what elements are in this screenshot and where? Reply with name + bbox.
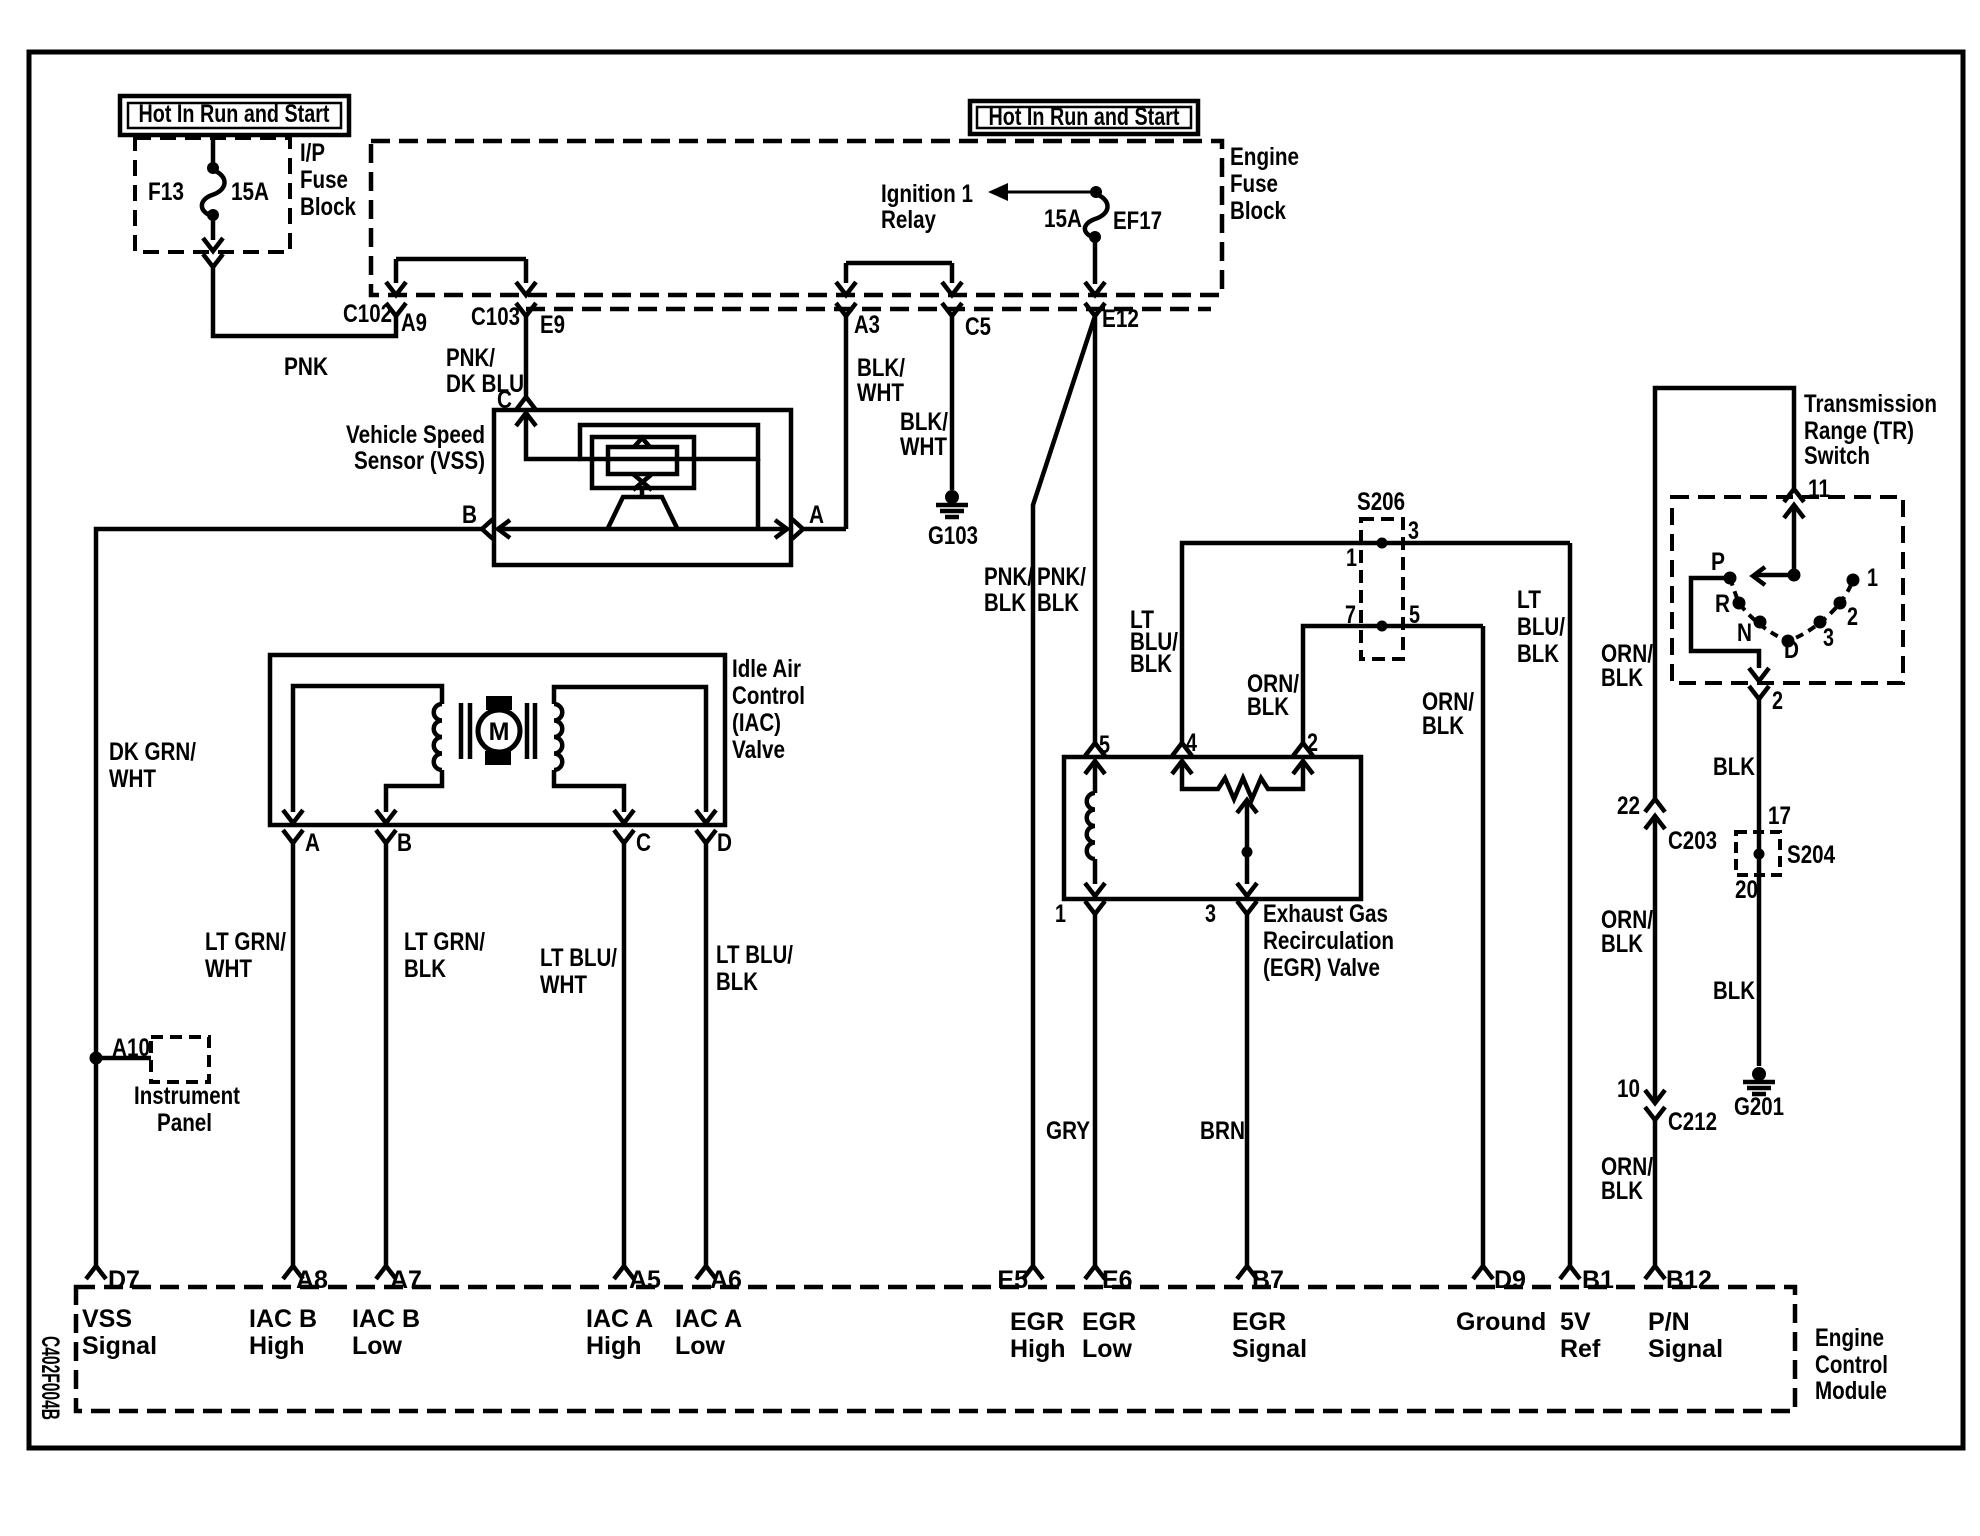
svg-text:IAC A: IAC A — [586, 1305, 653, 1333]
IAC motor M — [478, 696, 520, 765]
wire DK GRN/WHT: VSS B to ECM D7 — [96, 529, 482, 1266]
ground G201 — [1752, 1067, 1766, 1081]
svg-text:BLK: BLK — [1601, 664, 1643, 692]
svg-text:R: R — [1715, 590, 1730, 618]
Vehicle Speed Sensor (VSS) box — [494, 410, 791, 565]
connector ECM E5 — [1023, 1266, 1043, 1279]
connector C103/E9 — [516, 282, 536, 295]
wire BLK/WHT: A3 down to VSS pin A — [844, 316, 849, 529]
label LT BLU/BLK (EGR 4) — [1130, 606, 1178, 678]
svg-text:High: High — [1010, 1335, 1066, 1363]
svg-text:Transmission: Transmission — [1804, 390, 1937, 418]
svg-text:A10: A10 — [112, 1034, 150, 1062]
svg-text:Relay: Relay — [881, 206, 936, 234]
wire stub to instrument panel — [96, 1056, 151, 1061]
I/P Fuse Block (dashed box) — [135, 138, 290, 252]
connector EGR pin 3 — [1237, 901, 1257, 914]
svg-text:WHT: WHT — [857, 379, 904, 407]
connector VSS pin C — [516, 397, 536, 410]
svg-text:BLK: BLK — [1517, 640, 1559, 668]
splice dot S206 lower — [1377, 621, 1388, 632]
svg-text:Low: Low — [1082, 1335, 1133, 1363]
TR contact R — [1733, 597, 1746, 610]
wire PNK/DK BLU: E9 to VSS pin C — [524, 316, 529, 396]
svg-text:BLK: BLK — [1130, 650, 1172, 678]
connector TR pin 11 — [1784, 489, 1804, 502]
splice dot S206 upper — [1377, 538, 1388, 549]
svg-text:C203: C203 — [1668, 827, 1717, 855]
Engine Fuse Block (dashed box) — [371, 141, 1222, 295]
label BLK/WHT (C5 wire) — [900, 408, 948, 461]
connector IAC A — [283, 830, 303, 843]
connector ECM B12 — [1645, 1266, 1665, 1279]
svg-text:17: 17 — [1768, 802, 1791, 830]
svg-text:WHT: WHT — [540, 971, 587, 999]
svg-text:B12: B12 — [1666, 1266, 1712, 1294]
connector VSS pin A — [792, 519, 803, 539]
svg-text:A7: A7 — [390, 1266, 422, 1294]
svg-text:C5: C5 — [965, 313, 991, 341]
TR pivot junction — [1788, 569, 1801, 582]
wire PNK/BLK: E12 diagonal to ECM E5 — [1033, 316, 1095, 1266]
splice S206 (dashed box) — [1361, 519, 1403, 659]
TR contact 3 — [1814, 616, 1827, 629]
connector ECM D9 — [1473, 1266, 1493, 1279]
connector A3 — [836, 282, 856, 295]
TR contact P — [1724, 572, 1737, 585]
Idle Air Control (IAC) Valve box — [270, 655, 725, 825]
svg-text:Control: Control — [732, 682, 805, 710]
wire LT BLU/BLK: EGR 4 up to splice — [1182, 543, 1570, 743]
svg-text:Hot In Run and Start: Hot In Run and Start — [139, 100, 331, 128]
connector C102/A9 — [386, 282, 406, 295]
svg-text:PNK/: PNK/ — [984, 563, 1033, 591]
svg-text:C: C — [497, 386, 512, 414]
wire LT BLU/WHT: IAC C to ECM A5 — [622, 843, 627, 1266]
svg-text:E5: E5 — [997, 1266, 1028, 1294]
svg-text:15A: 15A — [231, 178, 269, 206]
svg-text:Vehicle Speed: Vehicle Speed — [346, 421, 485, 449]
svg-text:Engine: Engine — [1230, 143, 1299, 171]
svg-text:2: 2 — [1772, 687, 1783, 715]
label P/N Signal — [1648, 1308, 1723, 1363]
svg-text:5V: 5V — [1560, 1308, 1591, 1336]
svg-text:Ref: Ref — [1560, 1335, 1601, 1363]
svg-text:(EGR) Valve: (EGR) Valve — [1263, 954, 1380, 982]
svg-text:BLU/: BLU/ — [1517, 613, 1565, 641]
svg-text:IAC B: IAC B — [352, 1305, 420, 1333]
svg-text:C: C — [636, 829, 651, 857]
Ignition 1 Relay feed arrow — [988, 183, 1094, 201]
svg-text:D: D — [717, 829, 732, 857]
svg-text:A9: A9 — [401, 309, 427, 337]
svg-text:EGR: EGR — [1232, 1308, 1286, 1336]
dashed connector line below engine fuse block — [526, 307, 1211, 312]
svg-text:BLK: BLK — [984, 589, 1026, 617]
label IAC B Low — [352, 1305, 420, 1360]
svg-text:WHT: WHT — [900, 433, 947, 461]
ground G103 — [945, 490, 959, 504]
svg-text:Control: Control — [1815, 1351, 1888, 1379]
connector C5 — [942, 282, 962, 295]
svg-text:LT GRN/: LT GRN/ — [404, 928, 485, 956]
svg-text:DK GRN/: DK GRN/ — [109, 738, 196, 766]
svg-text:3: 3 — [1823, 624, 1834, 652]
svg-text:3: 3 — [1408, 517, 1419, 545]
connector EGR pin 4 — [1172, 743, 1192, 756]
svg-text:BLK: BLK — [1037, 589, 1079, 617]
label Engine Fuse Block — [1230, 143, 1299, 225]
svg-text:2: 2 — [1847, 603, 1858, 631]
TR contact N — [1754, 616, 1767, 629]
connector TR pin 2 — [1749, 686, 1769, 699]
label 5V Ref — [1560, 1308, 1601, 1363]
svg-text:B7: B7 — [1252, 1266, 1284, 1294]
svg-text:Engine: Engine — [1815, 1324, 1884, 1352]
svg-text:E12: E12 — [1102, 305, 1139, 333]
svg-text:GRY: GRY — [1046, 1117, 1090, 1145]
svg-text:BLK: BLK — [1422, 712, 1464, 740]
svg-text:Exhaust Gas: Exhaust Gas — [1263, 900, 1388, 928]
label Engine Control Module — [1815, 1324, 1888, 1405]
svg-text:PNK/: PNK/ — [446, 344, 495, 372]
EGR solenoid coil — [1087, 763, 1095, 884]
label EGR Signal — [1232, 1308, 1307, 1363]
connector C203 pin 22 — [1645, 799, 1665, 812]
label VSS Signal — [82, 1305, 157, 1360]
svg-text:E9: E9 — [540, 311, 565, 339]
connector below F13 — [203, 254, 223, 267]
svg-text:Signal: Signal — [1232, 1335, 1307, 1363]
wire LT BLU/BLK to ECM B1 — [1568, 543, 1573, 1266]
IAC pin A arrow — [283, 810, 303, 823]
svg-text:5: 5 — [1409, 601, 1420, 629]
svg-text:1: 1 — [1867, 564, 1878, 592]
wire LT GRN/WHT: IAC A to ECM A8 — [291, 843, 296, 1266]
svg-text:5: 5 — [1099, 731, 1110, 759]
label EGR High — [1010, 1308, 1066, 1363]
svg-text:B: B — [462, 501, 477, 529]
IAC winding B (left) — [293, 686, 442, 812]
svg-text:High: High — [586, 1332, 642, 1360]
connector VSS pin B — [482, 519, 493, 539]
svg-text:PNK: PNK — [284, 353, 328, 381]
svg-text:D7: D7 — [108, 1266, 140, 1294]
svg-text:E6: E6 — [1102, 1266, 1133, 1294]
label ORN/BLK (above C203) — [1601, 640, 1653, 692]
IAC motor gap bars — [461, 703, 535, 759]
svg-text:G201: G201 — [1734, 1093, 1784, 1121]
IAC pin C arrow — [614, 810, 634, 823]
svg-text:PNK/: PNK/ — [1037, 563, 1086, 591]
wire PNK/BLK: E12 to EGR pin 5 — [1093, 316, 1098, 743]
label I/P Fuse Block — [300, 139, 356, 221]
svg-text:S204: S204 — [1787, 841, 1835, 869]
svg-text:BLK: BLK — [1713, 977, 1755, 1005]
svg-text:A: A — [305, 829, 320, 857]
svg-text:Recirculation: Recirculation — [1263, 927, 1394, 955]
svg-text:I/P: I/P — [300, 139, 325, 167]
svg-text:C402F004B: C402F004B — [36, 1336, 64, 1420]
svg-text:B: B — [397, 829, 412, 857]
svg-text:IAC A: IAC A — [675, 1305, 742, 1333]
label Exhaust Gas Recirculation (EGR) Valve — [1263, 900, 1394, 982]
fuse F13 15A — [148, 138, 269, 251]
connector C212 pin 10 — [1645, 1090, 1665, 1103]
svg-text:A6: A6 — [710, 1266, 742, 1294]
connector ECM A7 — [376, 1266, 396, 1279]
svg-text:BLK: BLK — [716, 968, 758, 996]
wire BLK/WHT: C5 down to ground G103 — [950, 316, 955, 490]
svg-text:LT BLU/: LT BLU/ — [716, 941, 793, 969]
svg-text:Ignition 1: Ignition 1 — [881, 180, 973, 208]
label IAC A Low — [675, 1305, 742, 1360]
Exhaust Gas Recirculation (EGR) Valve box — [1064, 757, 1361, 899]
IAC winding A (right) — [554, 687, 706, 812]
wire TR P to pin 2 exit — [1691, 578, 1759, 668]
svg-text:C212: C212 — [1668, 1108, 1717, 1136]
jumper wire A3 to C5 inside engine fuse block — [846, 263, 952, 283]
connector ECM E6 — [1085, 1266, 1105, 1279]
svg-text:C102: C102 — [343, 300, 392, 328]
Engine Control Module (dashed box) — [76, 1287, 1795, 1411]
svg-text:B1: B1 — [1582, 1266, 1614, 1294]
connector ECM D7 — [86, 1266, 106, 1279]
svg-text:Signal: Signal — [82, 1332, 157, 1360]
svg-text:High: High — [249, 1332, 305, 1360]
svg-text:20: 20 — [1735, 876, 1758, 904]
svg-text:Low: Low — [675, 1332, 726, 1360]
label Vehicle Speed Sensor (VSS) — [346, 421, 485, 475]
wire LT BLU/BLK: IAC D to ECM A6 — [704, 843, 709, 1266]
label Transmission Range (TR) Switch — [1804, 390, 1937, 470]
svg-text:WHT: WHT — [109, 765, 156, 793]
svg-text:LT: LT — [1517, 586, 1541, 614]
connector EGR pin 2 — [1293, 743, 1313, 756]
wire TR pin 11 to pivot — [1792, 507, 1797, 575]
label EGR Low — [1082, 1308, 1136, 1363]
svg-text:IAC B: IAC B — [249, 1305, 317, 1333]
svg-text:15A: 15A — [1044, 205, 1082, 233]
label PNK/BLK (E5 wire) — [984, 563, 1033, 617]
svg-text:BLK/: BLK/ — [857, 354, 905, 382]
node: Hot In Run and Start (right title box) — [970, 101, 1198, 134]
svg-text:S206: S206 — [1357, 488, 1405, 516]
svg-text:Ground: Ground — [1456, 1308, 1546, 1336]
connector ECM A6 — [696, 1266, 716, 1279]
svg-text:EGR: EGR — [1010, 1308, 1064, 1336]
svg-text:D9: D9 — [1494, 1266, 1526, 1294]
svg-text:EF17: EF17 — [1113, 207, 1162, 235]
wire VSS B-A internal — [497, 527, 788, 532]
node: Hot In Run and Start (left title box) — [120, 96, 349, 135]
svg-text:LT BLU/: LT BLU/ — [540, 944, 617, 972]
svg-text:BLK: BLK — [1601, 930, 1643, 958]
label Idle Air Control (IAC) Valve — [732, 655, 805, 764]
jumper wire A9 to E9 inside engine fuse block — [396, 259, 526, 283]
svg-text:Switch: Switch — [1804, 442, 1870, 470]
connector ECM A8 — [283, 1266, 303, 1279]
connector ECM A5 — [614, 1266, 634, 1279]
svg-text:EGR: EGR — [1082, 1308, 1136, 1336]
connector EGR pin 5 — [1085, 743, 1105, 756]
svg-text:Block: Block — [1230, 197, 1286, 225]
svg-text:P: P — [1711, 548, 1725, 576]
Instrument Panel (dashed box) — [151, 1037, 209, 1082]
label ORN/BLK (EGR 2) — [1247, 670, 1299, 721]
svg-text:4: 4 — [1186, 729, 1197, 757]
svg-text:WHT: WHT — [205, 955, 252, 983]
svg-text:Low: Low — [352, 1332, 403, 1360]
TR contact arc (dashed) — [1730, 578, 1853, 641]
svg-text:BLK/: BLK/ — [900, 408, 948, 436]
svg-text:Hot In Run and Start: Hot In Run and Start — [989, 103, 1181, 131]
svg-text:F13: F13 — [148, 178, 184, 206]
svg-text:BLK: BLK — [1247, 693, 1289, 721]
splice S204 (dashed box) — [1736, 832, 1780, 875]
TR contact 1 — [1847, 574, 1860, 587]
svg-text:A: A — [809, 501, 824, 529]
svg-text:Module: Module — [1815, 1377, 1887, 1405]
EGR potentiometer resistor — [1182, 763, 1303, 799]
fuse EF17 15A — [1044, 186, 1162, 295]
connector ECM B7 — [1237, 1266, 1257, 1279]
wire BLK: TR 2 to S204 — [1757, 699, 1762, 1066]
svg-text:Instrument: Instrument — [134, 1082, 241, 1110]
connector IAC B — [376, 830, 396, 843]
TR contact D — [1782, 635, 1795, 648]
label Instrument Panel — [134, 1082, 241, 1137]
svg-text:P/N: P/N — [1648, 1308, 1690, 1336]
EGR pin 1 arrow — [1085, 883, 1105, 896]
svg-text:1: 1 — [1346, 544, 1357, 572]
svg-text:C103: C103 — [471, 303, 520, 331]
svg-text:DK BLU: DK BLU — [446, 370, 524, 398]
svg-text:G103: G103 — [928, 522, 978, 550]
label PNK/BLK (EGR 5 wire) — [1037, 563, 1086, 617]
wire ORN/BLK to ECM D9 — [1481, 626, 1486, 1266]
svg-text:(IAC): (IAC) — [732, 709, 781, 737]
svg-text:Fuse: Fuse — [1230, 170, 1278, 198]
connector E12 — [1085, 303, 1105, 316]
svg-text:10: 10 — [1617, 1075, 1640, 1103]
connector EGR pin 1 — [1085, 901, 1105, 914]
VSS internal sensor symbol — [526, 416, 758, 529]
label DK GRN/WHT — [109, 738, 196, 793]
connector IAC C — [614, 830, 634, 843]
TR rotary dashed box — [1672, 497, 1903, 683]
connector ECM B1 — [1560, 1266, 1580, 1279]
wire ORN/BLK: EGR 2 up to splice — [1303, 626, 1483, 743]
IAC pin B arrow — [376, 810, 396, 823]
svg-text:Range (TR): Range (TR) — [1804, 417, 1914, 445]
wire ORN/BLK: C203 to C212 — [1653, 818, 1658, 1103]
IAC pin D arrow — [696, 810, 716, 823]
svg-text:Signal: Signal — [1648, 1335, 1723, 1363]
svg-text:A3: A3 — [854, 311, 880, 339]
Transmission Range (TR) Switch box — [1655, 388, 1794, 799]
wire GRY: EGR 1 to ECM E6 — [1093, 914, 1098, 1266]
svg-text:Sensor (VSS): Sensor (VSS) — [354, 447, 485, 475]
svg-text:BRN: BRN — [1200, 1117, 1245, 1145]
label BLK/WHT (A3 wire) — [857, 354, 905, 407]
svg-text:VSS: VSS — [82, 1305, 132, 1333]
svg-text:Idle Air: Idle Air — [732, 655, 801, 683]
label Ignition 1 Relay — [881, 180, 973, 234]
svg-text:BLK: BLK — [1713, 753, 1755, 781]
wire PNK: F13 to C102 — [213, 267, 396, 336]
TR moving contact arrow to P — [1756, 573, 1794, 578]
wire VSS A to A3 wire corner — [803, 527, 846, 532]
junction dot A10 stub — [90, 1052, 103, 1065]
svg-text:7: 7 — [1345, 601, 1356, 629]
wire BRN: EGR 3 to ECM B7 — [1245, 914, 1250, 1266]
wire ORN/BLK: C212 to ECM B12 — [1653, 1120, 1658, 1266]
svg-text:22: 22 — [1617, 792, 1640, 820]
svg-text:Fuse: Fuse — [300, 166, 348, 194]
TR contact 2 — [1834, 597, 1847, 610]
svg-text:Valve: Valve — [732, 736, 785, 764]
svg-text:M: M — [489, 718, 510, 746]
label IAC B High — [249, 1305, 317, 1360]
svg-text:1: 1 — [1055, 900, 1066, 928]
svg-text:Panel: Panel — [157, 1109, 212, 1137]
svg-text:LT GRN/: LT GRN/ — [205, 928, 286, 956]
svg-text:N: N — [1737, 619, 1752, 647]
label IAC A High — [586, 1305, 653, 1360]
svg-text:Block: Block — [300, 193, 356, 221]
EGR wiper arrow — [1237, 800, 1257, 884]
wire LT GRN/BLK: IAC B to ECM A7 — [384, 843, 389, 1266]
svg-text:A8: A8 — [296, 1266, 328, 1294]
svg-text:2: 2 — [1307, 729, 1318, 757]
label PNK/DK BLU — [446, 344, 524, 398]
svg-text:A5: A5 — [629, 1266, 661, 1294]
svg-text:3: 3 — [1205, 900, 1216, 928]
svg-text:BLK: BLK — [404, 955, 446, 983]
svg-text:BLK: BLK — [1601, 1177, 1643, 1205]
connector IAC D — [696, 830, 716, 843]
EGR pin 3 arrow — [1237, 883, 1257, 896]
